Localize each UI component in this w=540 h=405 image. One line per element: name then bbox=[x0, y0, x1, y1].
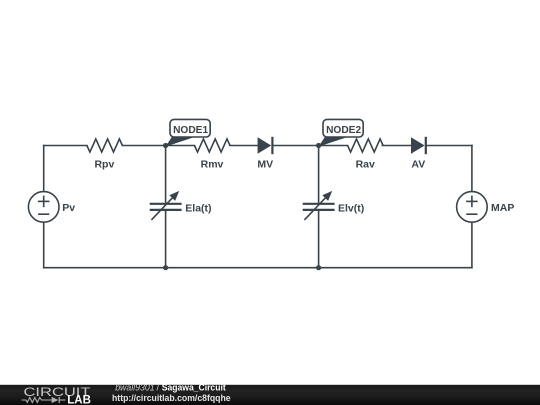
node NODE2 flag bbox=[319, 119, 364, 146]
wire bottom horizontal bbox=[44, 267, 472, 269]
wire left vertical upper bbox=[43, 146, 45, 192]
svg-text:Elv(t): Elv(t) bbox=[338, 202, 364, 214]
resistor Rav bbox=[348, 139, 384, 152]
resistor Rmv bbox=[195, 139, 231, 152]
svg-text:http://circuitlab.com/c8fqqhe: http://circuitlab.com/c8fqqhe bbox=[112, 393, 231, 403]
voltage source Pv bbox=[28, 192, 59, 223]
wire Rav to AV bbox=[382, 145, 411, 147]
wire node1 vertical lower bbox=[165, 210, 167, 268]
svg-text:Ela(t): Ela(t) bbox=[185, 202, 211, 214]
node B junction dot bottom bbox=[316, 265, 321, 270]
logo resistor zigzag bbox=[22, 398, 52, 403]
wire top-left horizontal bbox=[44, 145, 87, 147]
wire node1 vertical upper bbox=[165, 146, 167, 204]
wire AV to top-right bbox=[426, 145, 472, 147]
footer user/title line bbox=[115, 383, 226, 393]
svg-text:/: / bbox=[157, 383, 160, 393]
svg-text:bwall9301: bwall9301 bbox=[115, 383, 154, 393]
svg-text:Sagawa_Circuit: Sagawa_Circuit bbox=[162, 383, 226, 393]
wire Rmv to MV bbox=[230, 145, 258, 147]
wire right vertical upper bbox=[471, 146, 473, 192]
svg-text:AV: AV bbox=[411, 158, 425, 170]
capacitor Ela(t) bbox=[150, 191, 182, 220]
footer bar bbox=[0, 385, 540, 405]
wire node2 vertical upper bbox=[318, 146, 320, 204]
node NODE1 flag bbox=[166, 119, 211, 146]
svg-text:Rmv: Rmv bbox=[201, 158, 224, 170]
svg-text:NODE2: NODE2 bbox=[326, 125, 361, 136]
svg-text:Rpv: Rpv bbox=[94, 158, 114, 170]
node A junction dot bottom bbox=[163, 265, 168, 270]
logo diode bbox=[52, 397, 66, 403]
svg-text:NODE1: NODE1 bbox=[173, 125, 208, 136]
svg-text:Pv: Pv bbox=[62, 202, 75, 214]
svg-text:MAP: MAP bbox=[491, 202, 514, 214]
diode MV bbox=[258, 137, 273, 154]
svg-text:LAB: LAB bbox=[67, 393, 91, 405]
wire MV to Rav bbox=[272, 145, 347, 147]
wire right vertical lower bbox=[471, 222, 473, 268]
capacitor Elv(t) bbox=[303, 191, 335, 220]
wire node1 to Rmv bbox=[122, 145, 194, 147]
voltage source MAP bbox=[457, 192, 488, 223]
wire left vertical lower bbox=[43, 222, 45, 268]
node B junction dot top bbox=[316, 143, 321, 148]
svg-text:Rav: Rav bbox=[356, 158, 375, 170]
svg-text:MV: MV bbox=[257, 158, 273, 170]
diode AV bbox=[411, 137, 426, 154]
wire node2 vertical lower bbox=[318, 210, 320, 268]
node A junction dot top bbox=[163, 143, 168, 148]
resistor Rpv bbox=[87, 139, 123, 152]
